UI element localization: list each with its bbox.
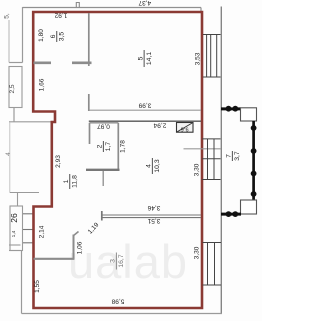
stairwell outer edge upper (8, 20, 10, 63)
balcony right rail (252, 121, 255, 200)
svg-text:4: 4 (5, 152, 12, 156)
svg-text:2,93: 2,93 (55, 155, 62, 168)
svg-text:5,98: 5,98 (111, 298, 124, 305)
svg-text:1,55: 1,55 (34, 280, 41, 293)
stair step line 3 (23, 242, 33, 244)
landing wall (17, 193, 19, 207)
svg-text:3,46: 3,46 (147, 204, 160, 211)
wc top wall (90, 122, 119, 124)
svg-text:3,7: 3,7 (234, 151, 241, 161)
stairwell ledge (9, 62, 23, 64)
stair stub (13, 108, 15, 122)
svg-text:3,51: 3,51 (147, 217, 160, 224)
svg-text:1,7: 1,7 (105, 142, 112, 152)
crossed label box (177, 123, 194, 133)
svg-text:ualab: ualab (68, 235, 188, 288)
svg-text:2,14: 2,14 (38, 225, 45, 238)
balcony bottom rail (221, 213, 241, 216)
wc door leaf (102, 171, 104, 186)
apartment red outline (33, 12, 202, 308)
partition jamb (101, 211, 103, 221)
balcony top rail (221, 107, 241, 110)
balcony bottom dots (226, 211, 232, 217)
svg-text:3,53: 3,53 (194, 52, 201, 65)
svg-text:1,78: 1,78 (120, 140, 127, 153)
svg-text:5: 5 (137, 56, 144, 60)
svg-text:1,4: 1,4 (11, 230, 17, 237)
svg-text:3,99: 3,99 (138, 102, 151, 109)
building facade right (220, 7, 222, 315)
stair step line 2 (23, 229, 33, 231)
facade vent notch (76, 3, 79, 8)
balcony corner slab top (241, 108, 257, 121)
svg-text:3,30: 3,30 (193, 246, 200, 259)
partition wall line 1 (102, 214, 201, 216)
room3 door tick (73, 232, 79, 237)
stairwell left wall lower (21, 251, 23, 314)
svg-text:5,: 5, (4, 13, 11, 19)
wc right wall (117, 123, 119, 171)
svg-text:26: 26 (9, 213, 19, 223)
svg-text:1,80: 1,80 (38, 29, 45, 42)
left facade faint (9, 122, 11, 193)
svg-text:2,94: 2,94 (153, 122, 166, 129)
svg-text:3,30: 3,30 (193, 163, 200, 176)
svg-text:9-6: 9-6 (181, 125, 189, 131)
svg-text:16,7: 16,7 (118, 254, 125, 267)
room 5 label (137, 50, 153, 67)
balcony door sill (184, 148, 221, 150)
room 2 label (97, 141, 113, 152)
svg-text:2: 2 (97, 144, 104, 148)
left party wall line (9, 121, 52, 123)
svg-text:4: 4 (146, 164, 153, 168)
svg-text:14,1: 14,1 (146, 52, 153, 65)
divider wall lower (88, 94, 90, 111)
svg-text:1,06: 1,06 (76, 241, 83, 254)
svg-text:1,92: 1,92 (54, 12, 67, 19)
building facade top (23, 7, 202, 9)
room6 door stub right (72, 61, 92, 64)
svg-text:10,3: 10,3 (154, 159, 161, 172)
balcony window unit W2 (202, 139, 221, 180)
facade corner top-right (200, 8, 202, 12)
lower ledge line 2 (9, 250, 21, 252)
corridor wall top line (89, 109, 201, 111)
svg-text:11,8: 11,8 (72, 175, 79, 188)
stair step line 1 (23, 213, 33, 215)
divider wall room6/5 (88, 13, 90, 66)
room 6 label (50, 31, 66, 42)
svg-text:6: 6 (50, 34, 57, 38)
partition wall line 2 (102, 217, 201, 219)
svg-text:1: 1 (63, 179, 70, 183)
balcony right dots (251, 125, 257, 131)
balcony corner slab bottom (241, 200, 257, 214)
svg-text:4,37: 4,37 (138, 0, 151, 6)
room 1 label (63, 174, 79, 189)
room6 door stub left (34, 61, 52, 64)
stair shaft B (10, 206, 23, 251)
building facade bottom (22, 313, 223, 315)
window W3 room3 (203, 243, 222, 286)
wc left wall (89, 123, 91, 144)
balcony top dots (226, 106, 232, 112)
room 7 label (226, 151, 242, 161)
svg-text:1,66: 1,66 (38, 78, 45, 91)
svg-text:3,5: 3,5 (59, 32, 66, 42)
svg-text:7: 7 (226, 154, 233, 158)
corridor wall bottom line (89, 120, 201, 122)
wc bottom wall (86, 169, 120, 171)
stair shaft A (9, 67, 22, 108)
window W1 room5 (203, 35, 221, 78)
room 4 label (146, 158, 162, 174)
svg-text:3: 3 (110, 259, 117, 263)
stairwell left wall upper (22, 7, 24, 63)
room3 partition horizontal (34, 258, 75, 260)
svg-text:2,5: 2,5 (9, 84, 16, 93)
room3 partition vertical (73, 235, 75, 260)
landing line (10, 192, 39, 194)
svg-text:0,97: 0,97 (97, 123, 110, 130)
lower ledge line 1 (9, 244, 21, 246)
room 3 label (110, 253, 126, 270)
